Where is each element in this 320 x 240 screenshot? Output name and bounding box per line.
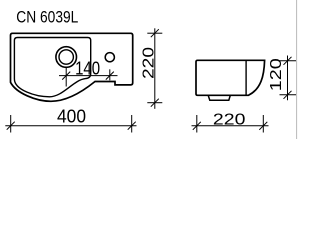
dim 220 vertical tick bottom (151, 99, 159, 107)
svg-text:400: 400 (57, 105, 86, 126)
dim 140 extension line at drain (65, 68, 67, 87)
page border line right (296, 0, 298, 139)
dim 220 bottom tick left (193, 122, 201, 130)
drain hole outer circle (56, 47, 77, 68)
dim 120 dimension line (287, 56, 289, 101)
dim 120 tick bottom (284, 91, 292, 99)
dim 120 extension line top (280, 60, 297, 62)
dim 140 tick right (106, 72, 114, 80)
svg-text:CN 6039L: CN 6039L (16, 8, 78, 27)
dim 220 bottom dimension line (192, 125, 269, 127)
dim 120 tick top (284, 57, 292, 65)
side view body outline (196, 60, 265, 95)
dim 400 dimension line (5, 125, 136, 127)
dim 220 vertical extension line bottom (147, 102, 162, 104)
basin top view inner bowl rim (14, 38, 90, 97)
drain hole inner circle (59, 50, 73, 64)
side view drain stub (208, 96, 230, 101)
svg-text:140: 140 (75, 57, 100, 78)
svg-text:220: 220 (141, 47, 158, 79)
svg-text:220: 220 (213, 112, 246, 129)
dim 220 bottom tick right (259, 122, 267, 130)
side view inner vertical line (245, 60, 247, 95)
dim 140 dimension line (59, 75, 118, 77)
dim 220 vertical tick top (151, 29, 159, 37)
dim 220 vertical dimension line (154, 28, 156, 109)
dim 220 bottom extension line left (196, 115, 198, 133)
faucet hole circle (105, 53, 114, 62)
dim 400 extension line left (10, 115, 12, 133)
svg-text:120: 120 (268, 58, 285, 91)
dim 220 bottom extension line right (262, 115, 264, 133)
dim 400 extension line right (131, 115, 133, 133)
dim 400 tick left (7, 122, 15, 130)
dim 140 extension line at faucet (109, 69, 111, 80)
dim 220 vertical extension line top (147, 32, 162, 34)
dim 400 tick right (128, 122, 136, 130)
basin top view outer outline (11, 33, 133, 101)
dim 140 tick left (62, 72, 70, 80)
dim 120 extension line bottom (280, 94, 297, 96)
